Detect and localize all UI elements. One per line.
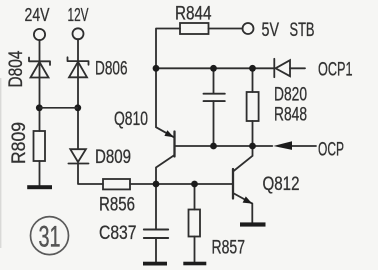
svg-text:Q810: Q810 [114, 109, 148, 130]
svg-text:D806: D806 [95, 59, 128, 80]
svg-text:D820: D820 [274, 85, 307, 106]
svg-text:D804: D804 [6, 50, 27, 87]
svg-text:Q812: Q812 [263, 174, 300, 195]
svg-text:24V: 24V [25, 5, 50, 25]
svg-text:OCP1: OCP1 [318, 60, 353, 81]
svg-text:5V: 5V [262, 20, 280, 41]
svg-text:R857: R857 [212, 238, 246, 259]
svg-text:R844: R844 [175, 4, 212, 25]
svg-text:31: 31 [38, 221, 60, 254]
svg-text:D809: D809 [95, 147, 131, 168]
svg-text:STB: STB [290, 20, 315, 41]
svg-text:12V: 12V [68, 5, 89, 25]
svg-text:R848: R848 [274, 105, 307, 126]
svg-text:OCP: OCP [318, 140, 344, 161]
svg-text:R809: R809 [9, 122, 30, 164]
svg-text:C837: C837 [99, 223, 137, 244]
svg-text:R856: R856 [99, 195, 135, 216]
